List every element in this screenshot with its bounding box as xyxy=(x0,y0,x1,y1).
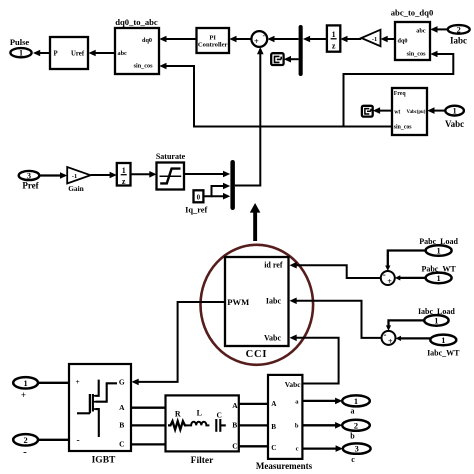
svg-text:abc_to_dq0: abc_to_dq0 xyxy=(391,8,434,18)
wire Pabc_Load to sum1 top xyxy=(388,251,426,269)
wire oval1 to IGBT xyxy=(38,382,69,384)
svg-text:R: R xyxy=(175,409,181,418)
svg-text:Pabc_Load: Pabc_Load xyxy=(419,237,458,246)
svg-text:3: 3 xyxy=(355,445,359,454)
block unit delay 1/z (top) xyxy=(327,25,340,51)
wire sin_cos branch to abc_to_dq0 xyxy=(344,54,454,127)
svg-text:b: b xyxy=(295,423,299,430)
wire mux output up to sum xyxy=(235,49,260,185)
block Filter xyxy=(166,395,239,466)
svg-text:+: + xyxy=(388,337,393,346)
wire Measurements Vabc to CCI Vabc xyxy=(292,338,339,384)
gain Gain (-1) triangle right-pointing xyxy=(67,167,90,193)
transistor icon inside IGBT xyxy=(77,380,117,437)
svg-text:Pulse: Pulse xyxy=(10,37,30,47)
PLL / Freq block xyxy=(392,88,427,135)
svg-text:Freq: Freq xyxy=(394,91,407,97)
svg-text:C: C xyxy=(119,439,124,448)
svg-text:A: A xyxy=(232,401,238,410)
svg-text:Controller: Controller xyxy=(198,42,228,49)
inport oval Iabc_WT (1) xyxy=(427,335,460,358)
scope block S2 xyxy=(362,106,373,117)
svg-text:Vabc: Vabc xyxy=(264,334,281,343)
inport oval Iabc_Load (1) xyxy=(418,307,455,326)
svg-text:-: - xyxy=(383,270,386,280)
svg-text:+: + xyxy=(387,277,392,286)
svg-text:B: B xyxy=(119,420,124,429)
svg-text:dq0_to_abc: dq0_to_abc xyxy=(115,17,158,27)
svg-text:Iabc_Load: Iabc_Load xyxy=(418,307,455,316)
block dq0_to_abc xyxy=(115,17,159,74)
inport oval Iabc (2) xyxy=(448,25,470,45)
svg-text:1: 1 xyxy=(434,316,438,325)
svg-text:C: C xyxy=(271,444,276,452)
svg-text:G: G xyxy=(119,377,125,386)
svg-text:z: z xyxy=(122,177,126,186)
svg-text:abc: abc xyxy=(416,27,426,34)
svg-text:2: 2 xyxy=(24,436,28,445)
scope block S1 xyxy=(271,53,283,65)
thick arrow up to mux area xyxy=(253,212,257,242)
svg-text:Vabc: Vabc xyxy=(285,380,301,389)
svg-text:sin_cos: sin_cos xyxy=(394,125,412,131)
svg-text:1: 1 xyxy=(24,379,28,388)
wire PI to dq0 port xyxy=(159,36,196,43)
block abc_to_dq0 xyxy=(391,8,434,60)
svg-text:+: + xyxy=(254,36,259,46)
svg-text:B: B xyxy=(271,423,276,431)
svg-text:A: A xyxy=(119,403,125,412)
svg-text:3: 3 xyxy=(27,171,31,180)
svg-text:-1: -1 xyxy=(372,36,377,43)
wire oval2 to IGBT xyxy=(38,439,69,441)
svg-text:abc: abc xyxy=(118,50,128,57)
svg-text:-: - xyxy=(23,446,27,458)
wire Meas c to outport c xyxy=(302,445,342,452)
inport oval Vabc (1) xyxy=(445,106,464,129)
wire Vabc to PLL xyxy=(427,107,445,114)
wire Iabc to abc port xyxy=(430,26,447,33)
svg-text:C: C xyxy=(232,442,237,451)
svg-text:P: P xyxy=(54,51,58,58)
svg-text:0: 0 xyxy=(197,194,201,202)
svg-text:Iabc_WT: Iabc_WT xyxy=(427,349,460,358)
svg-text:Vabc(pu): Vabc(pu) xyxy=(407,110,426,115)
svg-text:1: 1 xyxy=(453,107,457,116)
wire Uref to Pulse xyxy=(33,50,50,57)
wire demux to scope S1 xyxy=(284,56,299,63)
wire 1/z to demux xyxy=(303,36,327,43)
wire gain -1 to 1/z xyxy=(340,36,361,43)
svg-text:Iabc: Iabc xyxy=(450,36,467,46)
wire dq0_to_abc(abc) to Uref xyxy=(89,50,116,57)
block PI Controller xyxy=(197,28,230,53)
svg-text:c: c xyxy=(296,446,299,453)
block Saturate xyxy=(156,152,186,190)
svg-text:sin_cos: sin_cos xyxy=(134,63,154,70)
sum junction 2 (- +) xyxy=(382,330,396,346)
block CCI xyxy=(225,257,289,360)
svg-text:a: a xyxy=(351,407,355,416)
wire 0 to mux (two branches) xyxy=(203,186,228,196)
wire sum2 to CCI Iabc xyxy=(292,301,381,338)
block unit delay 1/z (middle) xyxy=(117,163,131,186)
svg-text:Saturate: Saturate xyxy=(156,152,186,161)
wire Meas b to outport b xyxy=(302,422,342,429)
svg-text:PWM: PWM xyxy=(227,297,249,307)
svg-text:sin_cos: sin_cos xyxy=(407,51,427,58)
wire Meas a to outport a xyxy=(302,398,342,405)
svg-text:2: 2 xyxy=(354,421,358,430)
wires IGBT to Filter (A,B,C) xyxy=(131,407,166,409)
svg-text:Uref: Uref xyxy=(71,51,85,58)
wires Filter to Measurements (A,B,C) xyxy=(239,403,268,405)
svg-text:dq0: dq0 xyxy=(398,37,408,44)
outport oval Pulse (1) xyxy=(10,37,32,57)
wire sin_cos bus: PLL to dq0_to_abc xyxy=(162,66,393,127)
svg-text:c: c xyxy=(351,455,355,464)
wire abc_to_dq0 to gain xyxy=(381,36,396,43)
svg-text:Vabc: Vabc xyxy=(445,119,464,129)
wire sum to PI xyxy=(229,36,251,43)
block constant 0 (Iq_ref) xyxy=(185,190,207,214)
svg-text:Gain: Gain xyxy=(68,184,84,193)
outport oval a (1) xyxy=(342,395,370,415)
svg-text:Pabc_WT: Pabc_WT xyxy=(421,264,456,273)
svg-text:wt: wt xyxy=(394,109,400,115)
svg-text:C: C xyxy=(216,410,221,419)
svg-text:id ref: id ref xyxy=(264,261,283,270)
wire 1/z to Saturate xyxy=(131,171,157,178)
svg-text:A: A xyxy=(271,400,277,408)
wire Freq(wt) to scope S2 xyxy=(373,107,392,114)
svg-text:1: 1 xyxy=(437,274,441,283)
inport oval 2 (-) xyxy=(13,434,38,458)
inductor L xyxy=(187,422,210,426)
sum junction 1 (- +) xyxy=(381,270,395,286)
svg-text:1: 1 xyxy=(354,397,358,406)
wire Pabc_WT to sum1 xyxy=(395,275,426,280)
inport oval Pref (3) xyxy=(19,171,40,190)
svg-text:2: 2 xyxy=(457,25,461,34)
svg-text:-1: -1 xyxy=(72,173,77,180)
svg-text:b: b xyxy=(350,431,355,440)
svg-text:IGBT: IGBT xyxy=(92,456,116,466)
wire Iabc_WT to sum2 xyxy=(396,336,431,341)
wire sum1 to CCI id ref xyxy=(292,265,381,278)
mux bar middle xyxy=(230,160,235,210)
svg-text:1: 1 xyxy=(437,247,441,256)
wire Saturate to mux xyxy=(184,171,230,178)
inport oval Pabc_WT (1) xyxy=(421,264,456,283)
block Uref (P) xyxy=(50,37,88,69)
capacitor C xyxy=(216,419,226,432)
svg-text:1: 1 xyxy=(122,166,126,175)
svg-text:1: 1 xyxy=(441,336,445,345)
svg-text:B: B xyxy=(232,421,237,430)
gain -1 triangle (left-pointing) xyxy=(361,30,380,47)
svg-text:Iq_ref: Iq_ref xyxy=(185,206,207,215)
demux bar top-right xyxy=(299,25,303,76)
outport oval c (3) xyxy=(343,443,371,464)
CCI highlight ellipse (maroon) xyxy=(200,245,313,365)
svg-text:-: - xyxy=(77,436,80,446)
svg-text:Pref: Pref xyxy=(22,180,39,190)
outport oval b (2) xyxy=(342,420,370,441)
wire Iabc_Load to sum2 top xyxy=(389,320,425,328)
svg-text:dq0: dq0 xyxy=(142,37,152,44)
block IGBT xyxy=(69,364,131,466)
svg-text:L: L xyxy=(197,408,202,417)
svg-text:1: 1 xyxy=(332,30,336,39)
svg-text:Filter: Filter xyxy=(191,456,214,466)
wire Pref to Gain xyxy=(39,172,67,179)
svg-text:+: + xyxy=(21,390,26,400)
sum junction top (+ ') xyxy=(251,31,267,47)
svg-text:+: + xyxy=(76,377,80,386)
resistor R xyxy=(168,421,187,429)
svg-text:PI: PI xyxy=(209,35,216,42)
wire demux to sum xyxy=(267,36,298,43)
svg-text:z: z xyxy=(332,42,336,51)
inport oval 1 (+) xyxy=(13,377,38,400)
inport oval Pabc_Load (1) xyxy=(419,237,458,256)
wire PWM to IGBT gate xyxy=(134,302,226,382)
svg-text:-: - xyxy=(384,330,387,340)
svg-text:Measurements: Measurements xyxy=(256,461,313,471)
svg-text:1: 1 xyxy=(19,49,23,58)
block Measurements xyxy=(256,375,313,471)
wire Gain to 1/z xyxy=(91,172,117,179)
svg-text:CCI: CCI xyxy=(246,349,268,360)
svg-text:Iabc: Iabc xyxy=(266,297,282,306)
